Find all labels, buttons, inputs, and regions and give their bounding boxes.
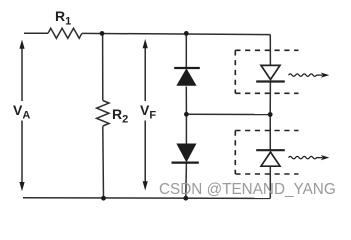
arrow VF (voltage indicator, double-headed) — [143, 39, 148, 191]
node bottom-diode — [183, 196, 188, 201]
resistor R2 — [97, 101, 109, 127]
label R2 — [112, 107, 128, 121]
wire middle horizontal — [186, 113, 270, 115]
wire diode branch vertical — [185, 33, 188, 198]
LED LED1 (in dashed box, cathode down) — [256, 65, 285, 81]
label VF — [140, 103, 156, 117]
resistor R1 — [48, 28, 82, 38]
LED LED2 (in dashed box, cathode up) — [256, 150, 285, 166]
node top-diode — [184, 31, 189, 36]
wire R2 branch vertical — [102, 33, 105, 198]
wire top horizontal — [24, 33, 270, 34]
node mid-diode — [184, 112, 189, 117]
light emission arrow 2 — [289, 155, 330, 160]
light emission arrow 1 — [289, 73, 330, 78]
node mid-LED — [268, 112, 273, 117]
node junction dots — [100, 31, 273, 201]
wire bottom horizontal — [23, 197, 270, 200]
dashed box (optocoupler 2) — [235, 131, 298, 175]
diode D1 (series diode, cathode up) — [174, 68, 200, 85]
wire right LED branch vertical — [269, 35, 271, 199]
diode D2 (series diode, cathode down) — [172, 144, 199, 163]
node top-R2 — [100, 31, 105, 36]
arrow VA (voltage indicator, double-headed) — [19, 40, 24, 192]
node bottom-R2 — [101, 196, 106, 201]
dashed box (optocoupler 1) — [235, 50, 298, 93]
label VA — [13, 103, 30, 117]
watermark text — [159, 182, 336, 197]
label R1 — [55, 9, 71, 23]
